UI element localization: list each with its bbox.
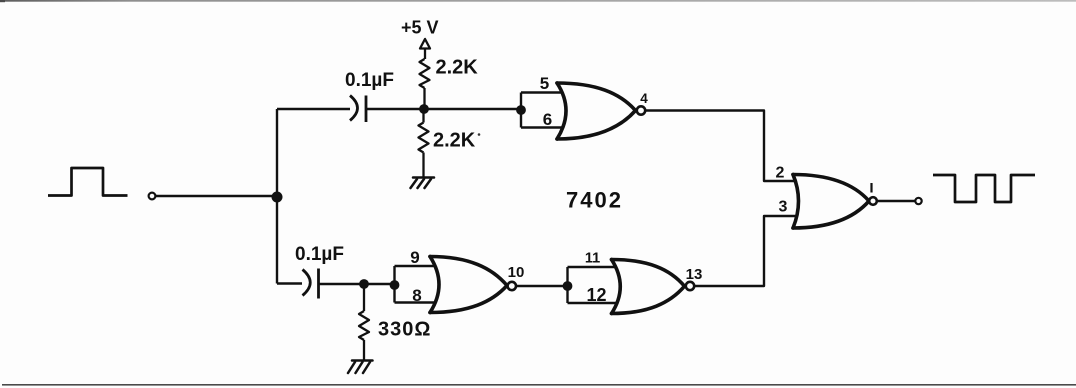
svg-text:0.1µF: 0.1µF xyxy=(345,70,394,91)
svg-text:8: 8 xyxy=(412,286,421,305)
svg-text:13: 13 xyxy=(686,266,703,283)
svg-text:7402: 7402 xyxy=(566,188,623,213)
svg-text:5: 5 xyxy=(540,74,549,93)
svg-text:12: 12 xyxy=(586,285,606,305)
svg-text:+5 V: +5 V xyxy=(401,18,439,38)
svg-text:0.1µF: 0.1µF xyxy=(295,244,344,265)
svg-text:6: 6 xyxy=(543,110,552,129)
svg-text:4: 4 xyxy=(640,91,648,106)
svg-text:2.2K: 2.2K xyxy=(433,130,476,152)
svg-text:2.2K: 2.2K xyxy=(436,57,479,79)
svg-text:3: 3 xyxy=(779,199,788,216)
svg-text:11: 11 xyxy=(585,251,600,267)
svg-text:2: 2 xyxy=(776,165,785,182)
svg-text:330Ω: 330Ω xyxy=(378,319,431,341)
svg-text:10: 10 xyxy=(508,264,525,281)
svg-text:9: 9 xyxy=(410,248,419,267)
